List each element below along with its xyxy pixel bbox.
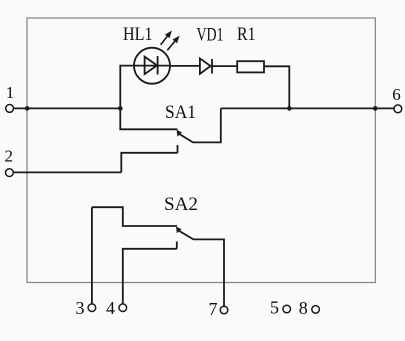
svg-text:1: 1: [6, 83, 15, 102]
switch SA2 lower fixed contact tick: [176, 242, 178, 249]
wire LED-branch left riser: [120, 66, 134, 109]
terminal 7: [220, 306, 228, 314]
svg-text:3: 3: [76, 298, 85, 318]
svg-text:7: 7: [209, 299, 218, 319]
wire node B to terminal 6: [221, 107, 394, 109]
terminal 3: [88, 304, 96, 312]
switch SA1 blade arrowhead: [177, 130, 182, 137]
svg-text:2: 2: [5, 147, 14, 166]
svg-text:SA2: SA2: [164, 195, 198, 215]
switch SA2 upper fixed contact wire: [92, 207, 177, 226]
terminal 1: [6, 105, 14, 113]
wire R1 to node B: [264, 66, 289, 108]
terminal 8: [312, 306, 320, 314]
switch SA2 lower fixed contact wire: [123, 249, 177, 304]
LED light arrow 2: [167, 36, 179, 51]
svg-text:4: 4: [106, 298, 115, 318]
node B junction dot: [287, 106, 292, 111]
switch SA1 lower fixed contact wire: [121, 153, 177, 173]
wire SA2 to terminal 3: [91, 207, 93, 304]
svg-text:VD1: VD1: [197, 25, 224, 45]
resistor R1: [237, 61, 264, 72]
LED HL1 circle: [134, 48, 170, 84]
switch SA1 blade: [179, 108, 221, 142]
wire HL1 to VD1: [170, 65, 200, 67]
wire from terminal 2 to SA1: [13, 171, 121, 173]
terminal 6: [394, 105, 402, 113]
LED HL1 diode: [145, 57, 157, 75]
node A junction dot: [118, 106, 123, 111]
svg-text:SA1: SA1: [165, 103, 196, 123]
svg-text:HL1: HL1: [123, 25, 153, 45]
svg-text:5: 5: [270, 298, 279, 318]
terminal 5: [283, 305, 291, 313]
switch SA2 blade: [178, 230, 224, 306]
terminal 4: [119, 304, 127, 312]
wire through HL1: [134, 65, 170, 67]
switch SA1 upper fixed contact wire: [120, 108, 177, 129]
diode VD1: [200, 59, 211, 74]
svg-text:8: 8: [299, 298, 308, 318]
svg-text:6: 6: [392, 85, 401, 104]
wire from terminal 1 to node A: [14, 107, 121, 109]
junction dot at right border crossing: [373, 106, 378, 111]
switch SA1 lower fixed contact tick: [177, 145, 179, 153]
switch SA2 blade arrowhead: [176, 227, 181, 234]
enclosure outline: [27, 18, 375, 283]
terminal 2: [5, 169, 13, 177]
junction dot at left border crossing: [25, 106, 30, 111]
wire VD1 to R1: [212, 65, 237, 67]
svg-text:R1: R1: [237, 25, 256, 45]
LED light arrow 1: [161, 31, 172, 45]
